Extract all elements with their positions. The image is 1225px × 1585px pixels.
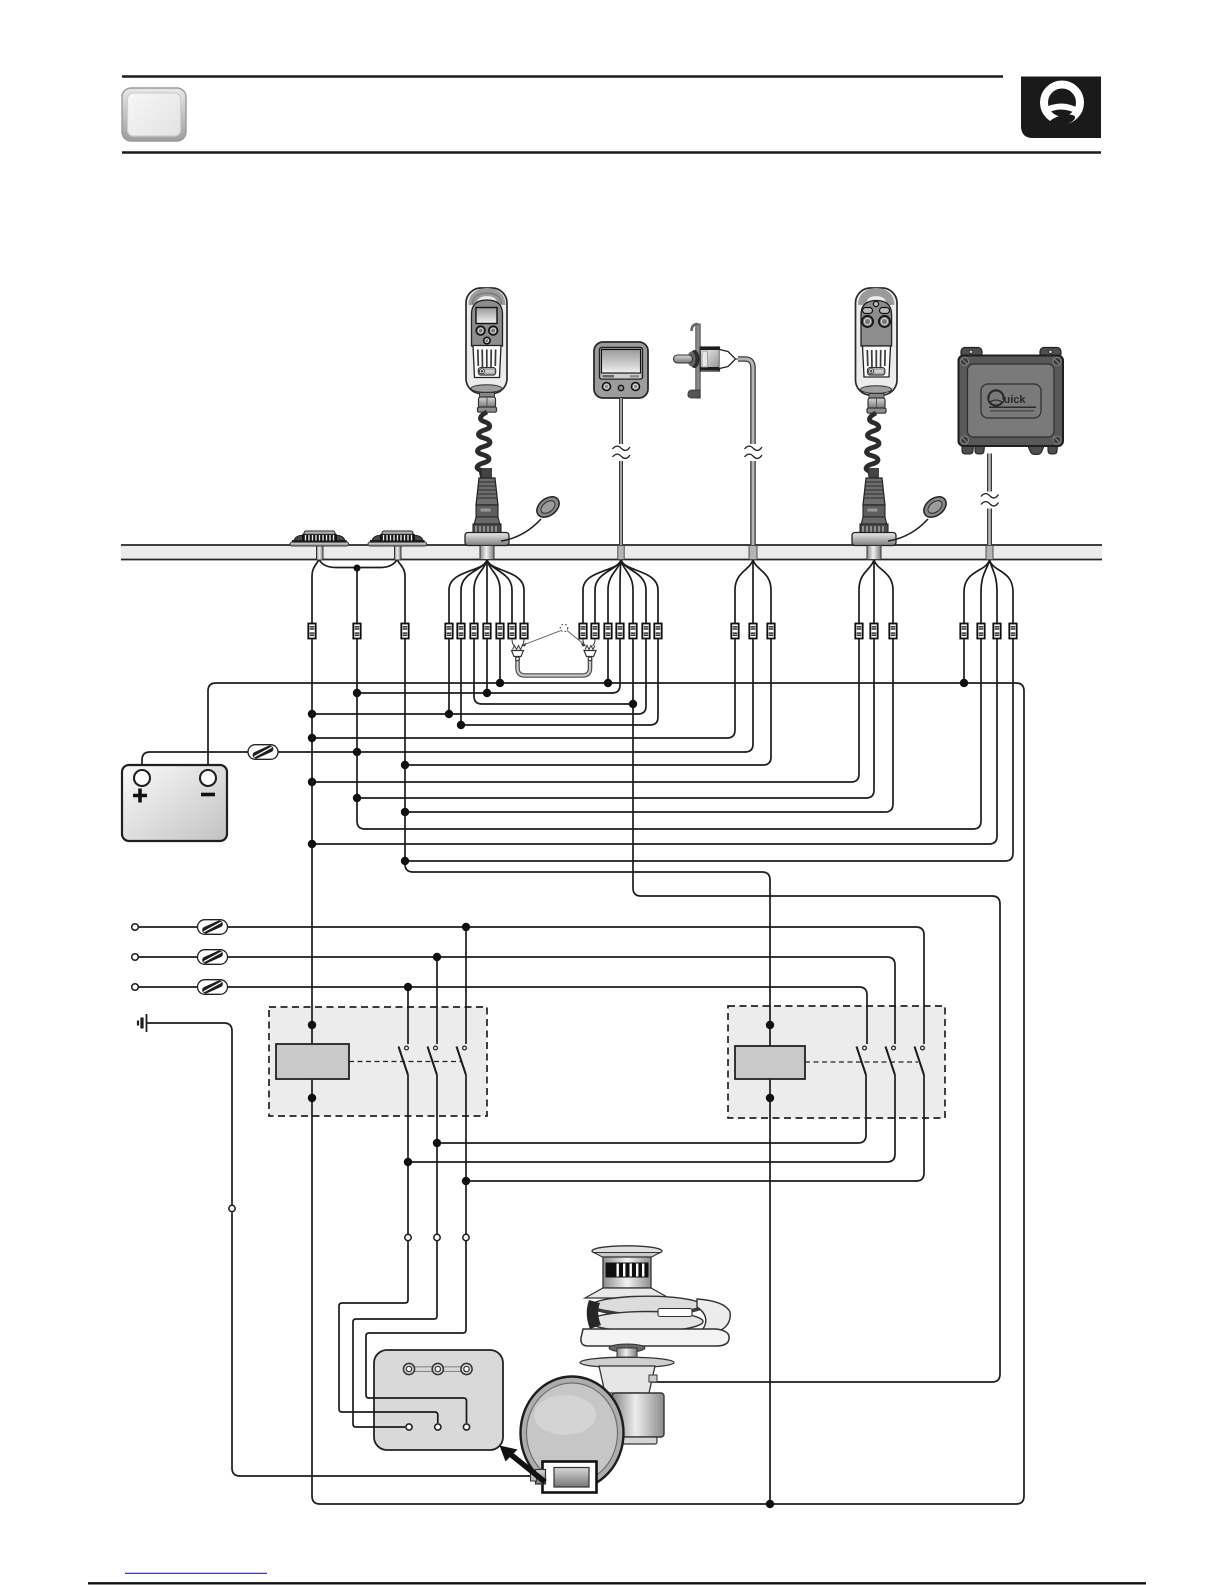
svg-text:uick: uick	[1004, 394, 1027, 406]
